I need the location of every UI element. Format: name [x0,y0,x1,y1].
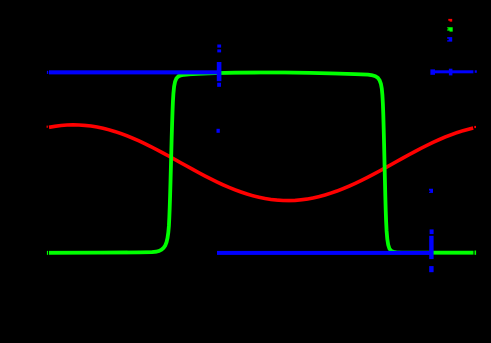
blue square wave low segment [217,251,431,255]
blue square wave high segment right [435,70,473,73]
red sine curve start dash [47,126,48,128]
blue point marker on high segment right [449,69,453,76]
blue square wave high segment left [49,70,220,74]
blue falling edge dash above 1 [217,45,221,48]
blue rising edge point marker [429,189,433,193]
green square wave start dash [47,251,48,255]
red sine curve [49,125,473,201]
green square wave end dash [475,251,477,255]
blue falling edge dot [217,129,220,133]
blue rising edge dash below [429,266,433,272]
blue rising edge vertical bar [429,236,433,259]
legend red point marker [448,19,452,22]
blue square wave high segment right start blob [430,69,435,74]
legend green point marker [447,27,453,31]
blue falling edge dash above 2 [217,49,221,52]
blue square wave end dash [475,70,477,73]
blue falling edge vertical bar [217,62,222,81]
red sine curve end point marker [474,126,476,128]
green square wave curve [49,73,474,253]
blue falling edge dash below [217,83,221,87]
blue square wave start dash [47,71,48,74]
blue rising edge dash above [430,229,434,234]
legend blue point marker [447,37,452,42]
